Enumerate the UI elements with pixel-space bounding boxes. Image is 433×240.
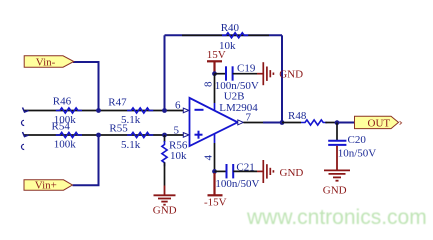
resistor R40 — [222, 33, 248, 38]
power -15V bar — [208, 173, 223, 195]
resistor R55 — [127, 132, 153, 137]
resistor R46 — [56, 108, 82, 113]
junction output node — [335, 120, 340, 125]
svg-text:10k: 10k — [170, 150, 187, 162]
svg-text:10n/50V: 10n/50V — [338, 148, 377, 160]
svg-text:www.cntronics.com: www.cntronics.com — [246, 206, 427, 229]
wire pin5 node down — [164, 135, 166, 142]
svg-text:Vin-: Vin- — [36, 56, 56, 68]
resistor R48 — [301, 120, 327, 125]
junction Vin- riser / row1 — [96, 108, 101, 113]
wire output pin7 — [243, 122, 263, 124]
wire output to R48 — [282, 122, 301, 124]
pin 4 wire — [214, 134, 216, 143]
wire 15V junction to C19 — [215, 73, 226, 75]
ground GND (below C20) — [324, 170, 350, 180]
wire R56 to ground — [164, 162, 166, 185]
junction feedback/output — [280, 120, 285, 125]
svg-text:R46: R46 — [53, 96, 72, 108]
svg-text:R40: R40 — [221, 22, 240, 34]
svg-text:LM2904: LM2904 — [219, 102, 258, 114]
wire row2 left (Vin+ path horizontal) — [24, 134, 183, 136]
wire C20 to GND — [336, 146, 338, 171]
capacitor C20 — [328, 141, 346, 145]
op-amp minus sign — [195, 109, 204, 111]
capacitor C19 — [226, 66, 233, 80]
wire row1 left (Vin- path horizontal) — [24, 110, 183, 112]
pin 7 arrow — [238, 120, 244, 125]
pin 6 arrow — [183, 108, 189, 113]
wire C21 to GND — [233, 170, 257, 172]
port flag Vin+ — [24, 180, 72, 190]
svg-text:-15V: -15V — [204, 196, 227, 208]
svg-text:R55: R55 — [109, 122, 128, 134]
wire node to OUT flag — [337, 122, 355, 124]
svg-text:100n/50V: 100n/50V — [215, 178, 259, 190]
wire C19 to GND — [233, 73, 257, 75]
svg-text:5.1k: 5.1k — [121, 139, 141, 151]
svg-text:C19: C19 — [237, 62, 256, 74]
power 15V bar — [207, 61, 222, 73]
wire Vin+ flag to riser — [73, 135, 99, 185]
svg-text:U2B: U2B — [224, 90, 245, 102]
svg-text:R48: R48 — [288, 110, 307, 122]
svg-text:Vin+: Vin+ — [35, 180, 57, 192]
op-amp plus sign — [195, 131, 203, 139]
wire -15V junction to C21 — [215, 170, 227, 172]
ground GND (below R56) — [154, 186, 176, 205]
wire feedback right riser — [281, 35, 283, 122]
junction Vin+ riser / row2 — [96, 133, 101, 138]
svg-text:GND: GND — [280, 167, 304, 179]
svg-text:100k: 100k — [54, 138, 77, 150]
wire Vin- flag to riser — [73, 62, 99, 111]
port flag OUT — [355, 116, 399, 128]
svg-text:8: 8 — [203, 81, 215, 87]
stray glyph fragment left margin row1 — [21, 120, 24, 125]
capacitor C21 — [227, 164, 234, 178]
junction -15V rail — [212, 169, 217, 174]
wire output navy segment — [263, 122, 282, 124]
wire hook row2 left end — [23, 132, 29, 137]
wire feedback top run — [165, 34, 283, 36]
port flag Vin- — [24, 56, 74, 67]
resistor R47 — [127, 108, 153, 113]
pin 5 arrow — [183, 133, 189, 138]
ground GND (mid, rotated) — [257, 160, 273, 183]
svg-text:4: 4 — [203, 155, 215, 161]
wire hook row1 left end — [23, 108, 29, 113]
svg-text:R47: R47 — [108, 97, 127, 109]
ground GND (top, rotated) — [257, 62, 273, 85]
pin 8 wire — [214, 74, 216, 103]
svg-text:R54: R54 — [52, 121, 71, 133]
stray glyph fragment left margin row2 — [21, 144, 24, 149]
node pin6 junction — [162, 108, 167, 113]
wire feedback top black overlay — [182, 34, 269, 36]
op-amp U2B — [190, 98, 238, 146]
node pin5 junction — [162, 133, 167, 138]
svg-text:6: 6 — [175, 100, 181, 112]
resistor R56 — [162, 141, 167, 166]
svg-text:OUT: OUT — [368, 117, 391, 129]
wire feedback left riser — [164, 35, 166, 110]
svg-text:GND: GND — [323, 185, 347, 197]
wire R48 to C20 node — [325, 122, 337, 124]
svg-text:GND: GND — [279, 68, 303, 80]
flag OUT tail chevron — [400, 121, 402, 124]
svg-text:15V: 15V — [207, 49, 226, 61]
svg-text:C20: C20 — [348, 134, 367, 146]
resistor R54 — [56, 132, 82, 137]
wire node down to C20 — [336, 123, 338, 141]
svg-text:GND: GND — [153, 205, 177, 217]
svg-text:5: 5 — [174, 124, 180, 136]
junction 15V rail — [212, 71, 217, 76]
